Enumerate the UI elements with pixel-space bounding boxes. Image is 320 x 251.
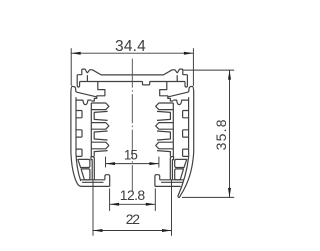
arrow 15 left	[106, 162, 116, 165]
dim 15 line	[106, 163, 159, 165]
svg-text:35.8: 35.8	[213, 118, 229, 150]
bottom left corner: slant into flat lip bottom	[71, 153, 110, 187]
bottom right lip underside	[155, 185, 181, 187]
svg-text:22: 22	[126, 211, 141, 227]
bottom right corner: slant with pointed foot	[178, 153, 194, 198]
dim 12.8 extension left	[109, 188, 111, 211]
dim 12.8 extension right	[154, 188, 156, 211]
arrow 22 left	[93, 229, 103, 232]
dim 34.4 line	[71, 52, 193, 54]
arrow 34.4 right	[184, 52, 194, 55]
dim 35.8 extension line top	[184, 69, 235, 71]
cap underside with offset dip	[80, 82, 185, 85]
top cap with ears	[77, 69, 187, 75]
centerline (dash-dot)	[131, 59, 133, 192]
dim 12.8 line	[110, 203, 156, 205]
arrow 12.8 right	[146, 203, 156, 206]
dim 35.8 extension line bottom	[182, 196, 234, 198]
arrow 12.8 left	[110, 203, 120, 206]
arrow 34.4 left	[71, 52, 81, 55]
dim 22 extension left	[92, 180, 94, 236]
dim 34.4 extension line right	[192, 48, 194, 86]
bottom left inner slant	[76, 153, 81, 182]
right half of track body (mirrored)	[155, 75, 194, 187]
dim 35.8 line	[229, 70, 231, 197]
dim 22 extension right	[171, 180, 173, 236]
dim 15 tick right	[158, 157, 160, 168]
dim 15 tick left	[105, 157, 107, 168]
dim 34.4 extension line left	[70, 48, 72, 86]
svg-text:34.4: 34.4	[115, 38, 146, 55]
arrow 22 right	[162, 229, 172, 232]
left half of track body	[71, 75, 110, 187]
arrow 35.8 top	[228, 70, 231, 80]
arrow 35.8 bottom	[228, 188, 231, 198]
svg-text:12.8: 12.8	[120, 187, 146, 203]
svg-text:15: 15	[124, 148, 138, 163]
arrow 15 right	[149, 162, 159, 165]
dim 22 line	[93, 230, 172, 232]
